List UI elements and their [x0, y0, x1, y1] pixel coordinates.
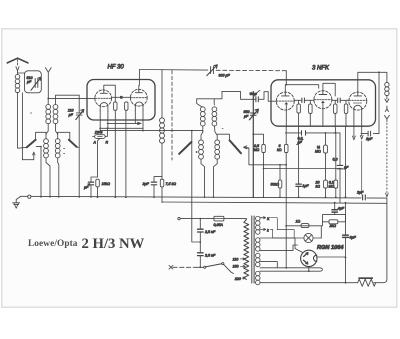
V4 plate wire: [323, 83, 335, 96]
resistor 0.5M: [253, 134, 265, 197]
transformer core: [252, 216, 254, 283]
trimmer cap symbol in box: [35, 79, 38, 88]
svg-text:300 pF: 300 pF: [219, 74, 231, 78]
variable cap 300pF: [207, 65, 218, 76]
field coil resistor: [346, 277, 376, 286]
svg-text:HF 30: HF 30: [108, 65, 125, 71]
tube pins through box bottom: [100, 110, 143, 197]
wire to ground bus: [36, 147, 41, 198]
pilot lamp shunt resistor 1ohm: [285, 222, 322, 238]
dashed speaker line: [386, 123, 388, 193]
tube V2 cathode: [135, 102, 143, 111]
transformer primary winding: [244, 219, 249, 280]
svg-text:110: 110: [233, 257, 239, 261]
dashed gang link to 3NFK: [216, 69, 286, 71]
wave switch left contact: [18, 132, 47, 148]
svg-text:3 NFK: 3 NFK: [312, 65, 330, 71]
svg-text:Loewe/Opta: Loewe/Opta: [28, 239, 78, 249]
5uF cap column: [337, 133, 343, 203]
trimmer 110pF: [76, 95, 84, 147]
svg-text:2µF: 2µF: [365, 137, 373, 141]
secondary tap mid: [260, 245, 298, 251]
ground symbol: [13, 197, 21, 209]
svg-text:pF: pF: [243, 114, 249, 118]
svg-text:MΩ: MΩ: [315, 150, 321, 154]
tube V2 anode and grid: [135, 89, 142, 92]
contact dots: [31, 113, 236, 154]
grid drop into 3NFK: [285, 71, 287, 85]
ground bus: [20, 196, 387, 198]
top feed wire: [139, 69, 207, 72]
svg-text:A: A: [93, 141, 97, 145]
svg-text:pF: pF: [68, 113, 74, 117]
svg-text:7,5 kΩ: 7,5 kΩ: [166, 182, 177, 186]
svg-text:ZWG: ZWG: [94, 130, 103, 134]
resistor R1: [114, 102, 117, 110]
grid wire to HF30: [48, 97, 95, 99]
secondary tap K1: [260, 217, 294, 238]
svg-text:k: k: [267, 228, 269, 232]
trimmer 550pF: [249, 109, 258, 120]
svg-text:MΩ: MΩ: [254, 148, 260, 152]
coupling cap C2: [332, 98, 349, 103]
svg-text:220: 220: [234, 277, 241, 281]
resistor Rb: [309, 100, 313, 126]
V1 anode wire to R1: [104, 85, 116, 102]
dashed gang link vertical: [171, 71, 173, 161]
secondary tap bottom: [260, 282, 346, 284]
tube V1 cathode: [100, 103, 108, 112]
IF coil: [160, 70, 165, 177]
jack contacts: [385, 99, 390, 122]
main HT vertical: [345, 203, 347, 283]
band filter 1 lower winding left: [44, 139, 50, 197]
ground terminal: [28, 195, 31, 198]
svg-text:5,0: 5,0: [333, 158, 338, 162]
resistor 0.1M: [334, 133, 338, 197]
tube V4 anode grid: [319, 91, 327, 95]
pilot lamp: [294, 233, 321, 252]
primary taps: [233, 257, 246, 261]
resistor R2: [125, 102, 128, 110]
fuse: [178, 216, 247, 221]
svg-text:kΩ: kΩ: [316, 185, 321, 189]
cap 1uF screen bypass: [296, 126, 301, 197]
band filter 2 lower winding left: [199, 140, 205, 197]
pin arrows: [353, 126, 356, 140]
band filter 1 upper winding left: [46, 98, 51, 138]
tube V3 cathode: [284, 102, 288, 104]
ZWG crystal: [93, 128, 108, 138]
tube V4 envelope: [314, 91, 332, 109]
switch 2 right contact: [217, 134, 242, 154]
coupling cap C1: [294, 98, 314, 103]
secondary tap to lamp: [260, 237, 295, 239]
band filter 2 lower winding right: [214, 140, 220, 197]
svg-text:pF: pF: [26, 80, 32, 84]
second antenna fork: [45, 68, 51, 99]
speaker tap wire down: [378, 72, 380, 133]
mains cap 1: [198, 229, 204, 252]
svg-text:150: 150: [233, 265, 239, 269]
tube V3 envelope: [276, 92, 294, 110]
band filter 1 upper winding right: [53, 95, 79, 139]
svg-text:MΩ: MΩ: [329, 185, 335, 189]
svg-text:2µF: 2µF: [356, 191, 364, 195]
V5 plate wire to speaker: [358, 72, 387, 92]
coupling wire upper: [107, 122, 137, 124]
mains switch: [196, 263, 233, 274]
speaker coupling coil: [385, 82, 389, 99]
rectifier tube RGN1064: [301, 250, 317, 266]
V2 plate wire to top: [138, 70, 141, 90]
antenna: [7, 58, 28, 63]
junction at box pin: [334, 132, 336, 134]
tube V2 envelope: [130, 89, 147, 106]
svg-text:15kΩ: 15kΩ: [102, 182, 111, 186]
transformer secondary winding: [256, 216, 261, 285]
switch return hook: [22, 152, 35, 160]
svg-text:2kΩ: 2kΩ: [329, 224, 337, 228]
wiper arrow: [244, 146, 287, 165]
tube V5 envelope: [349, 92, 367, 110]
svg-text:kΩ: kΩ: [277, 148, 282, 152]
bf2 waist wires: [201, 126, 217, 140]
resistor 6k: [285, 126, 289, 268]
8uF cap: [343, 235, 349, 237]
svg-text:8µF: 8µF: [350, 236, 357, 240]
resistor Rd: [344, 100, 348, 126]
antenna trimmer box 510pF: [18, 71, 42, 160]
mains lead dashed: [173, 266, 196, 268]
band filter 2 upper winding right: [212, 99, 217, 126]
lower coupling line: [264, 168, 341, 170]
antenna coil: [15, 71, 20, 149]
svg-text:1Ω: 1Ω: [296, 220, 301, 224]
coupling wire lower: [100, 128, 143, 130]
cathode resistor 15k: [96, 179, 100, 197]
mains terminal X: [169, 265, 173, 269]
svg-text:550: 550: [244, 110, 250, 114]
3NFK tube box: [271, 80, 376, 126]
band filter 1 lower winding right: [55, 139, 60, 197]
ZWG lead down: [98, 138, 100, 177]
svg-text:1µF: 1µF: [302, 184, 309, 188]
bus junction dots: [40, 196, 336, 198]
V3 top link to V4: [285, 85, 318, 92]
svg-text:RGN 1064: RGN 1064: [317, 245, 344, 251]
svg-text:R: R: [106, 141, 109, 145]
svg-text:0,65A: 0,65A: [214, 223, 224, 227]
2uF cap: [151, 177, 162, 198]
junction arrow black: [137, 122, 142, 126]
output coupling 2uF: [361, 131, 379, 136]
heater hairpin wire: [260, 267, 322, 272]
smoothing 4uF cap: [332, 202, 337, 215]
resistor Rc: [334, 100, 338, 133]
secondary tap K2: [260, 228, 294, 238]
band filter 2 upper winding left: [197, 99, 206, 126]
tube V1 anode and grid: [100, 90, 107, 93]
svg-text:4µF: 4µF: [338, 207, 345, 211]
tube V1 envelope: [95, 90, 112, 107]
resistor 50k: [278, 165, 282, 197]
right return wire: [374, 198, 387, 283]
tube V5 electrodes: [354, 92, 362, 96]
antenna lead-in dashed arrow: [17, 60, 19, 66]
svg-text:50kΩ: 50kΩ: [271, 182, 280, 186]
svg-text:2 H/3 NW: 2 H/3 NW: [82, 236, 145, 252]
svg-text:2µF: 2µF: [142, 182, 150, 186]
mains cap 2: [198, 253, 204, 267]
secondary tap low: [260, 262, 277, 268]
resistor 7.5k: [160, 177, 164, 203]
coupling capacitor black: [120, 96, 123, 99]
resistor Ra: [297, 100, 301, 126]
wave switch right contact: [58, 132, 79, 197]
svg-text:2,5 nF: 2,5 nF: [204, 230, 216, 234]
resistor 20k: [324, 180, 328, 197]
grid resistor half meg: [324, 133, 328, 180]
cathode bypass cap: [88, 177, 97, 197]
rectifier output wire: [317, 256, 346, 258]
svg-text:2,5 nF: 2,5 nF: [204, 254, 216, 258]
grid wire into 3NFK: [268, 92, 276, 102]
tuning gang wire: [252, 92, 254, 198]
HF30 tube box: [87, 80, 155, 121]
supply vertical from box: [345, 126, 347, 197]
bias bus: [162, 202, 387, 203]
tube V4 cathode: [321, 101, 325, 103]
switch 2 left contact: [178, 141, 192, 155]
tube V3 anode grid: [282, 92, 290, 96]
Wsp trimmer: [222, 90, 268, 102]
bf2 top bar: [197, 91, 222, 98]
2k resistor loop: [323, 215, 346, 224]
long screen wire to band filter 2: [100, 131, 203, 132]
long vertical to power unit: [192, 131, 201, 242]
output cap 2uF on bus: [361, 195, 366, 200]
anode coupling cap 0,1uF: [285, 131, 340, 136]
